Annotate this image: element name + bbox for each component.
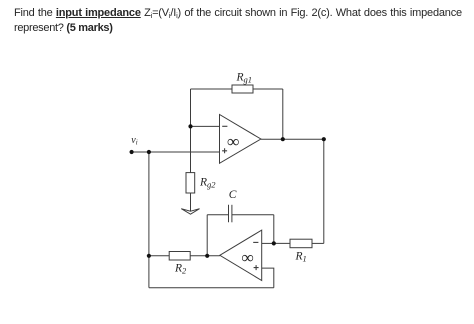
wire left vertical from input node down to R2 node <box>148 152 150 256</box>
label R2 <box>174 263 187 276</box>
infinity gain label U2 <box>241 248 253 267</box>
wire top rail left of Rg1 <box>191 88 233 90</box>
resistor Rg2 <box>186 173 195 193</box>
op-amp U2 <box>220 230 262 280</box>
wire Rg2 to ground <box>190 193 192 212</box>
resistor R2 <box>169 252 190 261</box>
wire U1 output <box>261 138 324 140</box>
wire feedback left vertical up to Rg1 <box>190 89 192 126</box>
node inverting input U1 <box>188 124 192 128</box>
svg-text:Rg1: Rg1 <box>236 72 253 85</box>
node R2 left junction <box>147 254 151 258</box>
label vi <box>131 135 137 147</box>
wire capacitor top right segment <box>232 214 274 216</box>
wire capacitor left vertical <box>206 215 208 256</box>
wire noninverting input loop of U2 <box>262 268 274 288</box>
wire bottom left vertical <box>148 256 150 288</box>
svg-text:R2: R2 <box>174 263 187 276</box>
question text line 2 <box>14 22 113 34</box>
wire right of R2 to U2 output <box>190 255 220 257</box>
infinity gain label U1 <box>227 132 239 151</box>
wire bottom rail <box>149 287 274 289</box>
resistor R1 <box>290 239 312 248</box>
wire capacitor top left segment <box>207 214 228 216</box>
wire top rail right of Rg1 <box>253 88 283 90</box>
wire Rg2 branch vertical <box>190 126 192 172</box>
node top right corner <box>322 137 326 141</box>
svg-text:vi: vi <box>131 135 137 147</box>
node vi terminal <box>130 150 134 154</box>
node U1 output feedback <box>281 137 285 141</box>
node bottom right junction <box>272 241 276 245</box>
label R1 <box>295 251 307 264</box>
wire right of R1 <box>312 242 324 244</box>
wire feedback right vertical down to output node <box>282 89 284 139</box>
wire inverting input of U2 <box>262 242 274 244</box>
wire inverting input of U1 <box>191 125 220 127</box>
capacitor C <box>229 205 232 223</box>
wire capacitor right vertical <box>273 215 275 244</box>
svg-text:∞: ∞ <box>227 132 239 151</box>
ground <box>181 209 199 215</box>
wire left of R1 to node <box>274 242 290 244</box>
op-amp U1 <box>220 115 261 164</box>
label Rg2 <box>199 177 216 190</box>
label C <box>229 189 237 201</box>
node input junction <box>147 150 151 154</box>
svg-text:Rg2: Rg2 <box>199 177 216 190</box>
label Rg1 <box>236 72 253 85</box>
svg-text:R1: R1 <box>295 251 307 264</box>
svg-text:C: C <box>229 189 237 201</box>
wire left of R2 <box>149 255 169 257</box>
question text line 1 <box>14 7 462 19</box>
node R2 right junction <box>205 254 209 258</box>
wire vi input horizontal <box>132 151 220 153</box>
wire right vertical down to R1 <box>323 139 325 243</box>
resistor Rg1 <box>232 85 253 93</box>
svg-text:∞: ∞ <box>241 248 253 267</box>
